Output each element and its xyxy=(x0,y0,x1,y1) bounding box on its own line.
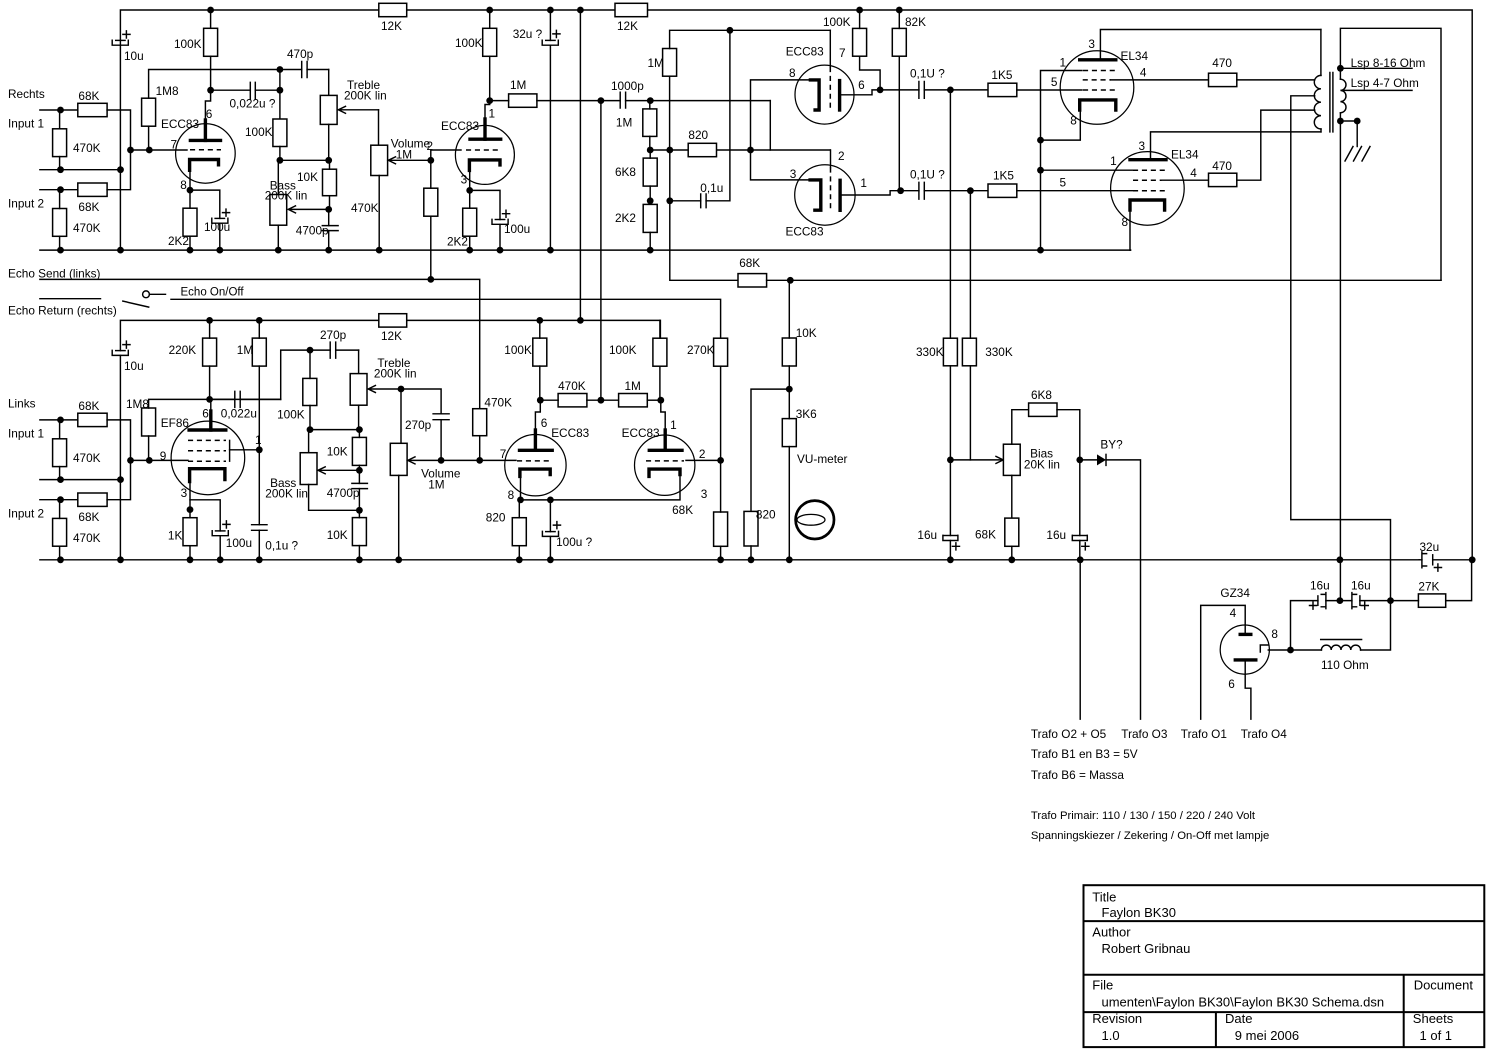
capacitor 270p treble-volume bridge xyxy=(401,389,441,414)
wire 2K2 leads xyxy=(189,190,191,250)
capacitor 4700p upper xyxy=(328,209,330,225)
grid dashes V1b xyxy=(466,149,501,151)
plate bar EF86 xyxy=(189,428,226,431)
wire 1K5 out to EL34 g1 xyxy=(1017,89,1082,91)
wire 100u#3 branch xyxy=(190,500,220,531)
svg-text:Echo Return (rechts): Echo Return (rechts) xyxy=(8,304,117,318)
wire 100K#2 leads xyxy=(489,10,491,101)
svg-text:27K: 27K xyxy=(1418,580,1439,594)
wiper arrow volume lower xyxy=(408,457,480,464)
node plate 2 xyxy=(486,97,493,104)
wire top HT rail xyxy=(120,10,1472,559)
svg-text:Input 1: Input 1 xyxy=(8,427,44,441)
wire to 1K5 lower xyxy=(970,190,988,192)
wire 270K bottom xyxy=(720,366,722,460)
wire 100u to ground xyxy=(219,223,221,250)
node gnd2 68K bias xyxy=(1008,556,1015,563)
svg-text:110 Ohm: 110 Ohm xyxy=(1321,658,1369,672)
capacitor 0,022u coupling lower xyxy=(210,398,281,400)
svg-text:68K: 68K xyxy=(975,528,996,542)
svg-text:ECC83: ECC83 xyxy=(786,45,824,59)
wire 470K leads lower xyxy=(59,420,61,480)
wire 16u bias ground xyxy=(949,541,951,560)
capacitor 270p treble lower xyxy=(310,349,359,351)
wiper arrow bias xyxy=(950,459,1003,461)
resistor 1M grid stopper upper xyxy=(509,94,537,107)
node gnd 100u#2 xyxy=(497,247,504,254)
potentiometer Treble 200K lin lower xyxy=(358,350,360,374)
wire cathode feedback bus xyxy=(650,149,830,151)
svg-text:Lsp 4-7 Ohm: Lsp 4-7 Ohm xyxy=(1351,76,1419,90)
svg-text:330K: 330K xyxy=(916,345,944,359)
wire 27K leads xyxy=(1391,560,1472,601)
svg-text:10u: 10u xyxy=(124,49,144,63)
wire plate pin6 V2a xyxy=(534,430,537,450)
wire 220K leads xyxy=(209,320,211,399)
tube ECC83 V3b splitter bottom xyxy=(795,165,855,225)
wire bass bottom to ground xyxy=(277,225,279,250)
wire cathode V2a down xyxy=(520,476,522,500)
resistor 10K tone lower 2 xyxy=(352,518,366,546)
node gnd bass xyxy=(275,247,282,254)
resistor 100K splitter load xyxy=(853,28,867,56)
node echo 470K grid lower xyxy=(476,457,483,464)
cathode pin8 GZ34 xyxy=(1260,645,1268,652)
wire 10u lower to ground xyxy=(119,356,121,560)
svg-text:6: 6 xyxy=(206,107,213,121)
svg-text:100u: 100u xyxy=(504,222,530,236)
svg-text:100K: 100K xyxy=(823,15,851,29)
resistor 100K plate load 1 xyxy=(204,28,218,56)
wire 2K2#2 leads xyxy=(469,190,471,250)
node 1000p input xyxy=(598,97,605,104)
svg-text:GZ34: GZ34 xyxy=(1220,586,1250,600)
wire grid2 riser xyxy=(769,101,771,150)
svg-text:Faylon BK30: Faylon BK30 xyxy=(1102,905,1176,920)
wire g2 pin4 EL34#2 xyxy=(1162,179,1209,181)
wire 100K bottom xyxy=(279,147,281,161)
svg-text:12K: 12K xyxy=(617,19,638,33)
svg-text:Trafo O3: Trafo O3 xyxy=(1121,727,1168,741)
node feedback 10K tap xyxy=(787,277,794,284)
svg-text:8: 8 xyxy=(508,488,515,502)
wiper arrow volume upper xyxy=(388,157,431,164)
wire 10K#2 to ground xyxy=(358,510,360,560)
wire speaker common down xyxy=(1339,121,1341,601)
grid dashes V2a xyxy=(517,460,552,462)
capacitor 100u? cathode lower xyxy=(549,500,551,532)
wiper arrow bass upper xyxy=(288,206,328,213)
svg-text:3K6: 3K6 xyxy=(796,407,817,421)
grid dashes V1a xyxy=(190,149,221,151)
cathode V2b xyxy=(649,469,680,476)
node gnd2 10u xyxy=(117,556,124,563)
resistor 1K5 grid stopper upper xyxy=(988,83,1017,96)
wire 100K top to rail xyxy=(210,10,212,28)
node rail 32u xyxy=(547,7,554,14)
wire 32u to ground xyxy=(549,45,551,250)
wire treble bottom xyxy=(328,124,330,160)
wire 68K bias ground xyxy=(1011,546,1013,560)
node feedback tap xyxy=(666,147,673,154)
wire lower supply rail xyxy=(120,320,660,350)
svg-text:1M: 1M xyxy=(510,78,526,92)
tube ECC83 V1b upper (triode) xyxy=(455,125,514,184)
capacitor 100u cathode EF86 xyxy=(216,530,225,532)
svg-text:File: File xyxy=(1092,978,1113,993)
svg-text:1000p: 1000p xyxy=(611,79,644,93)
node plate/0,022u junction xyxy=(207,87,214,94)
tube ECC83 V1a upper (triode) xyxy=(176,124,236,184)
wire echo on/off line xyxy=(171,299,721,338)
node psu ground center xyxy=(1337,597,1344,604)
capacitor 100u cathode V1a xyxy=(215,217,224,219)
wire corner up to 270p line xyxy=(281,350,310,399)
wire 820 leads xyxy=(518,500,520,560)
wire 470K to echo send xyxy=(430,160,432,279)
node lower rail 220K xyxy=(206,317,213,324)
wire cathode pin3 lower xyxy=(189,482,191,510)
wire trafo O2+O5 drop xyxy=(1079,560,1081,719)
wire 68K#2 out up lower xyxy=(107,460,130,499)
wire 0,1u branch drop xyxy=(706,30,730,201)
capacitor 470p treble xyxy=(280,69,329,71)
node g3 ground xyxy=(1037,247,1044,254)
node echo send 470K xyxy=(427,276,434,283)
wire grid pin7 xyxy=(829,30,831,67)
svg-text:470K: 470K xyxy=(351,201,379,215)
potentiometer Volume 1M lower xyxy=(400,389,402,443)
svg-text:1: 1 xyxy=(1060,55,1067,69)
svg-text:68K: 68K xyxy=(672,503,693,517)
node secondary common xyxy=(1337,118,1344,125)
svg-text:1: 1 xyxy=(670,418,677,432)
plate bar EL34#1 xyxy=(1080,58,1116,61)
svg-text:1 of 1: 1 of 1 xyxy=(1420,1028,1453,1043)
wire big coupling drop xyxy=(600,101,602,401)
wire g3 pin1 EL34#2 xyxy=(1041,169,1133,171)
svg-text:3: 3 xyxy=(1088,37,1095,51)
wire pin8 out xyxy=(1268,649,1290,651)
wire plate pin6 V3a xyxy=(840,90,881,95)
resistor 470K interstage xyxy=(558,394,587,407)
node g3 line 2 xyxy=(1037,167,1044,174)
resistor 100K plate load V2b xyxy=(653,338,667,366)
wire plate pin3 EL34#2 xyxy=(1151,132,1321,160)
plate bar V2a xyxy=(520,449,553,452)
wire 470K leads xyxy=(59,110,61,170)
wire 68K#2 out up to grid node xyxy=(107,150,130,190)
node 10u line at input node xyxy=(117,166,124,173)
svg-text:EF86: EF86 xyxy=(161,416,190,430)
node GZ34 output xyxy=(1287,647,1294,654)
wire 10u to ground xyxy=(119,45,121,250)
node rail 82K xyxy=(896,7,903,14)
svg-text:470p: 470p xyxy=(287,47,314,61)
node input1 junction xyxy=(57,107,64,114)
node 0,1U out lower xyxy=(967,187,974,194)
svg-text:6K8: 6K8 xyxy=(1031,388,1052,402)
node 4700p bass bottom xyxy=(356,507,363,514)
resistor 220K plate load EF86 xyxy=(203,338,217,366)
wire pin6 GZ34 xyxy=(1245,660,1251,719)
wire cathode pin8 to node xyxy=(189,170,191,190)
svg-text:Lsp 8-16 Ohm: Lsp 8-16 Ohm xyxy=(1351,56,1426,70)
svg-text:200K lin: 200K lin xyxy=(265,189,308,203)
cathode V1a xyxy=(190,160,219,171)
node gnd2 0,1u xyxy=(256,556,263,563)
svg-text:2: 2 xyxy=(427,139,434,153)
wire bass bottom line lower xyxy=(309,485,360,511)
node input2 junction xyxy=(57,186,64,193)
svg-text:ECC83: ECC83 xyxy=(161,117,199,131)
tube ECC83 V2b lower xyxy=(635,435,695,495)
wire 4700p bottom node xyxy=(358,489,360,511)
wire 470 to UL tap upper xyxy=(1237,79,1315,81)
svg-text:100K: 100K xyxy=(455,36,483,50)
node B+ 32u corner xyxy=(1469,556,1476,563)
resistor 10K tone lower 1 xyxy=(352,437,366,465)
cathode V1b xyxy=(469,160,500,171)
node psu B+ node xyxy=(1387,597,1394,604)
node 6K8 bottom xyxy=(647,197,654,204)
diode BY? xyxy=(1080,459,1097,461)
grid dashes EL34#2 xyxy=(1133,169,1166,171)
potentiometer Bias 20K lin xyxy=(1003,444,1020,475)
node 0,1U out upper xyxy=(947,87,954,94)
wire input2 lower xyxy=(40,499,78,501)
node 470K line lower xyxy=(57,476,64,483)
node 10u line lower xyxy=(117,476,124,483)
svg-text:270p: 270p xyxy=(320,328,347,342)
svg-text:16u: 16u xyxy=(1351,579,1371,593)
node 1M8 grid lower xyxy=(146,457,153,464)
node gnd 100u#1 xyxy=(216,247,223,254)
node gnd2 volume lower xyxy=(395,556,402,563)
capacitor 32u psu xyxy=(1419,559,1472,561)
node gnd2 68K lower xyxy=(717,556,724,563)
svg-text:Trafo O2 + O5: Trafo O2 + O5 xyxy=(1031,727,1107,741)
wire 1M8 top to plate line xyxy=(149,399,281,408)
wire 1M8 top to treble line xyxy=(149,70,280,99)
resistor 330K bias 1 xyxy=(943,338,957,366)
cathode V2a xyxy=(520,469,550,476)
node 1M8 grid xyxy=(146,147,153,154)
resistor 470 g2 stopper lower xyxy=(1209,173,1237,186)
wire input1 lower node xyxy=(40,169,121,171)
resistor 68K bias xyxy=(1005,518,1019,546)
wire treble bottom lower xyxy=(358,405,360,429)
svg-text:100K: 100K xyxy=(504,343,532,357)
wire 470K echo bottom xyxy=(479,436,481,461)
wire primary top lead xyxy=(1320,30,1322,76)
wire cathode pin8 EL34#1 xyxy=(1041,110,1081,140)
grid dashes V3a vertical xyxy=(829,67,831,110)
svg-text:6: 6 xyxy=(858,78,865,92)
node rail 100K xyxy=(207,7,214,14)
node 470K 1M junction xyxy=(598,397,605,404)
svg-text:470K: 470K xyxy=(73,141,101,155)
node plate V2a xyxy=(537,397,544,404)
svg-text:12K: 12K xyxy=(381,19,402,33)
resistor 68K input2 upper xyxy=(78,183,107,196)
node 470K bottom line xyxy=(57,166,64,173)
svg-text:1M: 1M xyxy=(396,148,412,162)
wire 1000p out xyxy=(626,100,771,102)
node input1 lower xyxy=(57,417,64,424)
svg-text:Spanningskiezer / Zekering / O: Spanningskiezer / Zekering / On-Off met … xyxy=(1031,830,1269,842)
svg-text:32u: 32u xyxy=(1420,540,1440,554)
node diode junction xyxy=(1076,457,1083,464)
wire primary center tap to B+ xyxy=(1291,96,1391,601)
node gnd 2K2#2 xyxy=(466,247,473,254)
node lower rail 1M xyxy=(256,317,263,324)
resistor 12K (top rail 1) xyxy=(379,3,407,16)
tube EF86 (pentode) xyxy=(171,421,245,495)
resistor 100K tone lower xyxy=(303,378,317,405)
svg-text:0,1u ?: 0,1u ? xyxy=(265,539,298,553)
svg-text:68K: 68K xyxy=(78,399,99,413)
cathode V3a xyxy=(810,80,819,110)
transformer core xyxy=(1330,73,1333,132)
node Lsp 8-16 tap xyxy=(1337,65,1344,72)
capacitor 16u bias right xyxy=(1079,460,1081,536)
grid dashes V3b vertical xyxy=(830,168,832,212)
node gnd 4700p xyxy=(325,247,332,254)
svg-text:Rechts: Rechts xyxy=(8,87,45,101)
capacitor 100u cathode V1b xyxy=(495,219,504,221)
svg-text:470K: 470K xyxy=(558,379,586,393)
wire 68K out to grid node lower xyxy=(107,420,130,461)
wire 100u#2 branch xyxy=(470,190,500,219)
wire plate pin6 lead xyxy=(204,120,207,140)
wire ground rail upper channel xyxy=(40,249,1131,251)
svg-text:2K2: 2K2 xyxy=(447,235,468,249)
svg-text:VU-meter: VU-meter xyxy=(797,452,848,466)
svg-text:200K lin: 200K lin xyxy=(265,487,308,501)
svg-text:200K lin: 200K lin xyxy=(374,367,417,381)
wiper arrow treble lower xyxy=(368,386,401,393)
capacitor 16u psu left xyxy=(1317,596,1319,605)
svg-text:7: 7 xyxy=(500,447,507,461)
node treble wiper junction xyxy=(398,386,405,393)
svg-text:8: 8 xyxy=(1122,215,1129,229)
svg-text:470: 470 xyxy=(1212,159,1232,173)
potentiometer Volume 1M upper xyxy=(371,145,388,175)
svg-text:Sheets: Sheets xyxy=(1413,1011,1454,1026)
node cathode EF86 xyxy=(187,506,194,513)
resistor 820 splitter xyxy=(688,143,716,156)
svg-text:6: 6 xyxy=(1228,677,1235,691)
wire cathode pin8 EL34#2 xyxy=(1129,210,1132,250)
svg-text:0,022u: 0,022u xyxy=(221,407,257,421)
svg-text:2K2: 2K2 xyxy=(615,211,636,225)
svg-text:470K: 470K xyxy=(73,451,101,465)
wire plate2 to 1M to 1000p xyxy=(490,100,620,102)
svg-text:Trafo Primair: 110 / 130 / 150: Trafo Primair: 110 / 130 / 150 / 220 / 2… xyxy=(1031,810,1256,822)
wire 0,1u left xyxy=(670,200,701,202)
svg-text:3: 3 xyxy=(1139,139,1146,153)
resistor 820 vu xyxy=(744,511,758,546)
capacitor 0,1U? lower coupling xyxy=(901,190,971,192)
resistor 1M divider mid xyxy=(643,109,657,136)
cathode EL34#2 xyxy=(1130,200,1165,210)
wire 470K-1M node xyxy=(540,399,618,401)
svg-text:6: 6 xyxy=(541,416,548,430)
node rail 100K splitter xyxy=(856,7,863,14)
svg-text:470K: 470K xyxy=(484,396,512,410)
resistor 2K2 divider xyxy=(643,204,657,232)
svg-text:3: 3 xyxy=(701,487,708,501)
node 270p 100K junction xyxy=(307,347,314,354)
node 0,1u 6K8 xyxy=(666,197,673,204)
svg-text:10K: 10K xyxy=(327,445,348,459)
svg-text:Document: Document xyxy=(1414,978,1474,993)
potentiometer Bass 200K lin upper xyxy=(277,160,279,194)
tube ECC83 V3a splitter top xyxy=(795,65,854,124)
node treble 10K xyxy=(325,157,332,164)
node input2 lower xyxy=(57,496,64,503)
resistor 12K (top rail 2) xyxy=(615,3,648,16)
resistor 1M divider top xyxy=(663,49,677,77)
svg-text:8: 8 xyxy=(1070,114,1077,128)
svg-text:7: 7 xyxy=(171,138,178,152)
potentiometer Treble 200K lin upper xyxy=(328,70,330,96)
capacitor 4700p lower xyxy=(352,483,368,488)
svg-text:8: 8 xyxy=(1271,627,1278,641)
wire bias pot top to 6K8 xyxy=(1012,410,1029,445)
svg-text:ECC83: ECC83 xyxy=(622,426,660,440)
svg-text:1K5: 1K5 xyxy=(993,169,1014,183)
svg-text:270K: 270K xyxy=(687,343,715,357)
wiper arrow bass lower xyxy=(318,467,359,474)
svg-text:82K: 82K xyxy=(905,15,926,29)
svg-text:1.0: 1.0 xyxy=(1102,1028,1120,1043)
resistor 10K vu divider xyxy=(782,338,796,366)
resistor 82K splitter load xyxy=(892,28,906,56)
wire 270p bridge to wiper line xyxy=(440,420,442,461)
node gnd 10u xyxy=(117,247,124,254)
wire 1M top to grid bus xyxy=(670,30,831,48)
svg-text:100K: 100K xyxy=(609,343,637,357)
svg-text:1M: 1M xyxy=(616,116,632,130)
svg-text:1K: 1K xyxy=(168,529,183,543)
grid dashes EF86 xyxy=(188,439,226,441)
svg-text:68K: 68K xyxy=(78,510,99,524)
node 0,022u out xyxy=(277,87,284,94)
resistor 470K input2 lower xyxy=(53,518,67,546)
wire 10K leads xyxy=(788,280,790,389)
svg-text:6: 6 xyxy=(202,407,209,421)
node cathode 100u xyxy=(547,497,554,504)
svg-text:1M: 1M xyxy=(625,379,641,393)
wire primary bottom lead xyxy=(1320,129,1322,132)
resistor 1M8 grid leak upper xyxy=(142,98,156,126)
wire EF86 plate pin6 xyxy=(209,411,212,430)
node bass wiper lower xyxy=(356,467,363,474)
svg-text:1: 1 xyxy=(255,433,262,447)
wire input1 lower node line xyxy=(40,479,121,481)
svg-text:1M8: 1M8 xyxy=(156,84,179,98)
plate bar V3a xyxy=(838,81,841,110)
wire grid line pin7 xyxy=(131,149,188,151)
node 1000p out / 1M divider top xyxy=(647,97,654,104)
node g3 cathode tie 1 xyxy=(1037,137,1044,144)
capacitor 0,1u splitter xyxy=(701,194,706,208)
wire 470p node drop xyxy=(279,70,281,120)
screen tie line EF86 xyxy=(229,440,231,461)
tube EL34 #1 xyxy=(1060,51,1134,125)
